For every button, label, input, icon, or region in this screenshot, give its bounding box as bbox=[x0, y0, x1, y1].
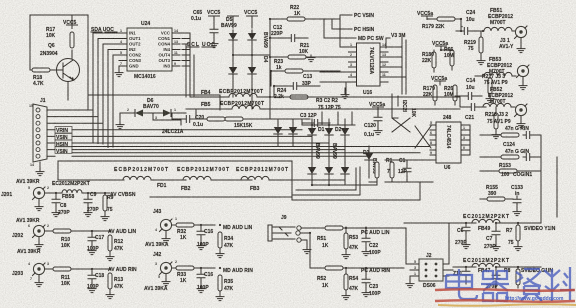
ground D6 bbox=[116, 113, 124, 129]
watermark char 4 (liao) bbox=[544, 267, 574, 301]
wire top-left loop bbox=[30, 15, 88, 100]
label 24LC21A bbox=[153, 120, 184, 135]
capacitor C9 bbox=[84, 192, 99, 217]
resistor pair 15K15K bbox=[205, 117, 310, 129]
resistor R52 bbox=[317, 266, 404, 289]
resistor R22 bbox=[270, 5, 340, 21]
node G GIN bbox=[480, 149, 541, 161]
resistor R219 bbox=[464, 31, 485, 65]
capacitor C16 bbox=[197, 225, 213, 250]
node MD AUD LIN bbox=[223, 225, 253, 231]
resistor R180 bbox=[422, 50, 436, 72]
scan noise overlay bbox=[0, 0, 1, 1]
label AV1 39KR J201 bbox=[16, 179, 90, 187]
diode DA1 bbox=[274, 119, 282, 146]
VCC5 node right bbox=[244, 10, 258, 28]
watermark yellow line bbox=[438, 304, 576, 306]
ferrite bead FB4 bbox=[190, 89, 460, 107]
diode D5 BAV99 label bbox=[221, 17, 237, 29]
watermark red line 2 bbox=[435, 300, 575, 302]
resistor R26 bbox=[444, 85, 457, 105]
ferrite bead FB52 bbox=[482, 87, 515, 107]
ground J2 bbox=[406, 276, 414, 288]
label AV1 39KR J202 bbox=[16, 218, 40, 224]
node SVIDEO Y1IN bbox=[524, 226, 556, 232]
node MD AUD RIN bbox=[223, 268, 253, 274]
wire collector bbox=[71, 50, 73, 59]
ferrite bead FB2 bbox=[177, 167, 252, 192]
capacitor C23 bbox=[362, 268, 381, 297]
diode D3 bbox=[363, 146, 377, 178]
diode D6 BAV70 bbox=[120, 98, 186, 120]
jack J3-1 AV1-Y bbox=[499, 26, 527, 53]
ferrite bead FB58 bbox=[45, 190, 110, 200]
ferrite bead FB49 bbox=[478, 226, 490, 232]
label D4 BAV99 vertical bbox=[262, 32, 268, 63]
capacitor C22 bbox=[362, 227, 381, 256]
node PC AUD LIN bbox=[361, 230, 390, 236]
ferrite bead FB47 label bbox=[453, 258, 541, 267]
transistor Q6 2N3904 bbox=[40, 43, 80, 82]
wire crossing diagonals bbox=[392, 118, 410, 132]
capacitor C124 bbox=[503, 142, 515, 148]
node V3 3M bbox=[386, 33, 405, 48]
diode chain D2 bbox=[325, 119, 342, 185]
watermark char 2 (qi) bbox=[481, 271, 509, 301]
node AV AUD RIN bbox=[108, 267, 137, 273]
IC U6 bbox=[430, 121, 470, 171]
capacitor C120 bbox=[364, 114, 382, 138]
jack J203 bbox=[12, 262, 49, 287]
connector J9 bbox=[268, 215, 301, 242]
node VSIN2 bbox=[55, 147, 72, 155]
wire feed column bbox=[269, 19, 271, 119]
resistor R179 bbox=[422, 17, 461, 30]
node VRIN bbox=[55, 127, 72, 135]
capacitor C3 bbox=[300, 113, 330, 127]
jack J3-2 bbox=[515, 104, 528, 128]
capacitor C11 bbox=[486, 267, 500, 290]
VCC5a channel1 bbox=[417, 11, 433, 20]
node AV AUD LIN bbox=[108, 229, 136, 235]
resistor R66 bbox=[441, 47, 454, 70]
resistor R17 bbox=[46, 27, 74, 48]
capacitor C24 bbox=[456, 10, 479, 35]
resistor R155 bbox=[480, 185, 513, 201]
resistor R217 bbox=[482, 74, 508, 103]
wire ch1 junction bbox=[460, 19, 462, 31]
connector J2 bbox=[413, 253, 449, 289]
resistor R12 bbox=[106, 235, 124, 261]
capacitor C133 bbox=[511, 185, 523, 216]
wire bus J1 to right bbox=[55, 110, 430, 156]
capacitor C16b bbox=[197, 268, 213, 293]
resistor R13 bbox=[106, 273, 124, 299]
node MD PC SW bbox=[324, 19, 384, 42]
watermark url bbox=[505, 296, 564, 302]
jack J202 bbox=[12, 224, 49, 249]
node HSIN bbox=[55, 140, 72, 148]
wire U6 area bbox=[385, 160, 433, 182]
ferrite bead FB5 bbox=[186, 101, 460, 109]
capacitor C17 bbox=[87, 231, 104, 255]
wire crossing X2 bbox=[415, 126, 431, 148]
resistor R179b bbox=[423, 85, 437, 105]
capacitor C20 bbox=[172, 115, 205, 128]
VCC5 label Q6 bbox=[63, 20, 78, 29]
wire diode taps bbox=[233, 19, 270, 55]
ferrite bead FB51 bbox=[479, 8, 515, 31]
node AV CVBSN bbox=[105, 192, 136, 198]
jack J3-3 bbox=[517, 65, 530, 90]
node SCL UOC bbox=[187, 42, 215, 48]
connector J1 bbox=[29, 98, 47, 167]
resistor R33 bbox=[172, 266, 215, 284]
node PC HSIN bbox=[332, 19, 375, 33]
resistor R35 bbox=[216, 275, 234, 301]
wire U16 left feeds bbox=[320, 19, 406, 118]
node SVIDEO G1IN bbox=[521, 268, 553, 274]
ferrite bead FB47 bbox=[478, 268, 490, 274]
VCC5a mid bbox=[369, 102, 385, 115]
wire bottom frame bbox=[58, 161, 292, 197]
wire diode array ties bbox=[292, 119, 420, 200]
resistor R7 bbox=[506, 223, 522, 251]
capacitor C14 bbox=[455, 78, 482, 100]
resistor R54 bbox=[342, 268, 359, 300]
wire ladder U24 left bbox=[93, 33, 127, 148]
diode DA2 bbox=[289, 119, 297, 146]
capacitor C18 bbox=[87, 269, 104, 293]
junction dots feed column bbox=[269, 18, 272, 98]
resistor R53 bbox=[342, 227, 359, 259]
capacitor C1 bbox=[398, 158, 411, 182]
resistor R23 bbox=[271, 59, 340, 86]
capacitor C12 bbox=[270, 25, 308, 42]
capacitor C65 bbox=[191, 10, 218, 48]
resistor RD3 bbox=[369, 162, 379, 182]
IC U16 74LVC126A bbox=[349, 43, 389, 96]
resistor R51 bbox=[317, 226, 345, 249]
watermark red line 1 bbox=[435, 289, 575, 291]
resistor R10 bbox=[45, 229, 111, 249]
resistor R1 bbox=[386, 158, 394, 182]
IC U24 MC14016 bbox=[119, 21, 180, 80]
jack J42 bbox=[144, 252, 177, 292]
diode chain D2b bbox=[341, 119, 349, 185]
diode pair D5 left chain bbox=[229, 30, 237, 97]
resistor R153 bbox=[480, 163, 541, 178]
wire J9 to R51 bbox=[300, 228, 325, 268]
wire diode array top bbox=[270, 118, 310, 120]
ground U24 bbox=[115, 66, 123, 77]
node VSIN bbox=[55, 133, 72, 141]
capacitor C7 bbox=[484, 223, 500, 251]
node SDA UOC bbox=[91, 27, 117, 33]
node PC AUD RIN bbox=[361, 268, 390, 274]
ferrite bead FB3 bbox=[236, 167, 345, 192]
capacitor C8 bbox=[52, 193, 70, 217]
resistor R21 bbox=[270, 43, 320, 59]
resistor R32 bbox=[172, 223, 215, 241]
label 248 C21 bbox=[443, 104, 486, 122]
wire U24 right drops bbox=[180, 33, 194, 97]
jack J43 bbox=[145, 209, 177, 248]
resistor R8 bbox=[504, 267, 520, 288]
capacitor C10 bbox=[453, 267, 470, 284]
ferrite bead FB1 bbox=[58, 167, 186, 189]
watermark char 3 (zi) bbox=[516, 269, 542, 301]
capacitor C13 bbox=[273, 55, 320, 97]
label I2C vertical bbox=[401, 100, 416, 118]
diode pair D5 right chain bbox=[248, 30, 256, 109]
resistor R11 bbox=[45, 267, 111, 287]
VCC5 node mid bbox=[228, 16, 239, 28]
resistor R218 bbox=[485, 107, 511, 139]
wire mid horizontals bbox=[172, 109, 196, 119]
diode chain D1 bbox=[308, 119, 325, 185]
resistor R34 bbox=[216, 232, 234, 258]
wire right verticals bbox=[541, 135, 557, 223]
label AV1 39KR J203 bbox=[17, 249, 41, 255]
node G RIN bbox=[480, 126, 541, 139]
wire J1 stubs bbox=[47, 110, 55, 156]
ground J9 bbox=[301, 240, 311, 254]
ferrite bead FB49 label bbox=[404, 214, 541, 223]
ground J1 bbox=[36, 162, 44, 176]
label C2 R2 bbox=[316, 98, 352, 124]
node PC VSIN bbox=[340, 13, 374, 19]
wire J2 up bbox=[343, 223, 453, 270]
jack J201 bbox=[1, 186, 49, 211]
resistor R18 bbox=[30, 68, 63, 87]
VCC5a ch3 bbox=[431, 76, 447, 85]
VCC5 node left bbox=[207, 10, 221, 20]
resistor R9 bbox=[101, 193, 114, 221]
VCC5a mid bbox=[432, 41, 448, 50]
watermark char 1 (dian) bbox=[446, 269, 477, 299]
resistor R24 bbox=[270, 88, 320, 100]
wire bus verticals mid bbox=[88, 95, 220, 110]
ground U16 bbox=[341, 88, 349, 99]
ferrite bead FB53 bbox=[475, 57, 516, 76]
capacitor C6 bbox=[455, 223, 470, 249]
